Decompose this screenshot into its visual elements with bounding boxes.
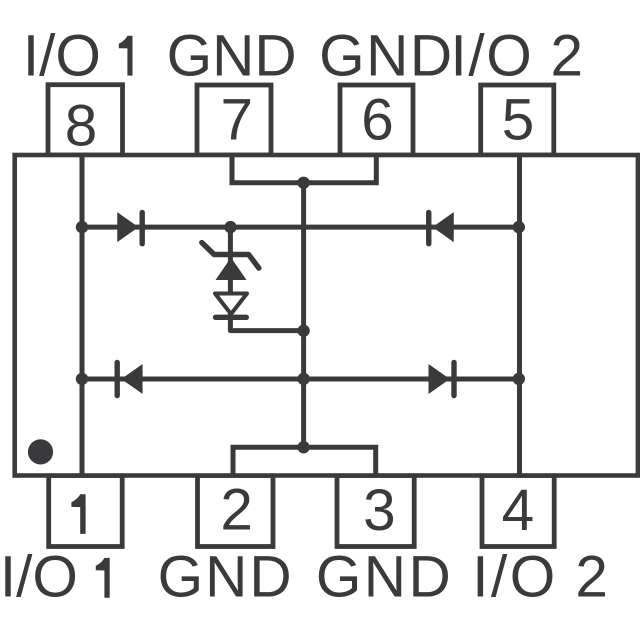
svg-text:2: 2 xyxy=(220,477,253,542)
svg-text:I/O: I/O xyxy=(0,545,78,610)
svg-text:3: 3 xyxy=(363,478,396,543)
svg-text:2: 2 xyxy=(551,24,584,89)
svg-text:I/O: I/O xyxy=(472,545,558,610)
svg-text:6: 6 xyxy=(361,88,394,153)
svg-text:5: 5 xyxy=(502,88,535,153)
svg-text:8: 8 xyxy=(65,94,98,159)
svg-text:GND: GND xyxy=(316,545,453,610)
svg-text:GND: GND xyxy=(319,24,454,89)
svg-text:GND: GND xyxy=(158,545,294,610)
svg-text:I/O: I/O xyxy=(23,24,101,89)
svg-text:2: 2 xyxy=(575,545,608,610)
svg-text:GND: GND xyxy=(167,24,297,89)
svg-text:4: 4 xyxy=(502,478,535,543)
svg-text:I/O: I/O xyxy=(451,24,534,89)
svg-text:7: 7 xyxy=(221,88,254,153)
